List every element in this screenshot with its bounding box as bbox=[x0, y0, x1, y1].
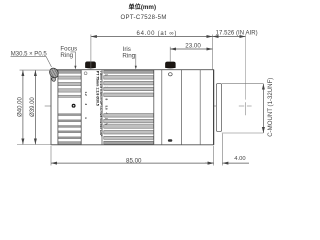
svg-text:Ø40.00: Ø40.00 bbox=[18, 97, 24, 117]
rear barrel inner line bbox=[199, 70, 201, 145]
c-mount extension lines bbox=[222, 83, 264, 85]
focus index dot bbox=[72, 104, 75, 107]
focus knurl section A bbox=[58, 70, 81, 144]
iris knurl section C bbox=[104, 70, 154, 144]
lens body outline bbox=[51, 70, 214, 145]
section B/C boundary bbox=[101, 70, 103, 145]
svg-text:PT 75mm 1:2.8 Ø30.5: PT 75mm 1:2.8 Ø30.5 bbox=[96, 71, 100, 106]
svg-text:Ring: Ring bbox=[122, 53, 135, 60]
svg-text:Ø39.00: Ø39.00 bbox=[30, 97, 36, 117]
svg-text:23.00: 23.00 bbox=[185, 43, 201, 50]
dim 64.00 line bbox=[91, 36, 213, 38]
dia 39 dim line bbox=[34, 70, 36, 144]
svg-text:C-MOUNT (1-32UNF): C-MOUNT (1-32UNF) bbox=[267, 78, 274, 137]
flange face bbox=[213, 70, 215, 145]
svg-text:Ring: Ring bbox=[60, 52, 73, 59]
iris knob screw top bbox=[168, 73, 172, 76]
svg-text:单位(mm): 单位(mm) bbox=[129, 3, 157, 11]
dim 23.00 line bbox=[170, 48, 212, 50]
dia 40 dim line bbox=[22, 70, 24, 144]
front thread blob M30.5 bbox=[48, 67, 60, 80]
focus knob screw bbox=[84, 72, 87, 75]
section D/E boundary bbox=[181, 70, 183, 145]
barrel engraving text bbox=[96, 71, 104, 138]
64 left ext bbox=[90, 35, 92, 70]
front cap section bbox=[57, 70, 59, 145]
svg-text:85.00: 85.00 bbox=[126, 158, 142, 165]
svg-text:64.00 (at ∞): 64.00 (at ∞) bbox=[137, 31, 178, 37]
focus lock knob bbox=[85, 62, 95, 68]
svg-text:∞: ∞ bbox=[84, 117, 88, 119]
svg-text:5.6: 5.6 bbox=[104, 106, 108, 111]
image plane line bbox=[245, 35, 247, 100]
svg-text:75mm 1:2.8 0.3m-∞ OPT-C7528 01: 75mm 1:2.8 0.3m-∞ OPT-C7528 012345 CAP bbox=[99, 71, 103, 138]
centerline bbox=[45, 105, 222, 107]
aperture scale numbers bbox=[104, 74, 108, 127]
dim 85.00 bbox=[50, 146, 52, 166]
section C right rim bbox=[153, 70, 155, 145]
iris screw bottom bbox=[168, 139, 172, 142]
dia dim bottom ext line bbox=[17, 144, 57, 146]
C-mount thread bbox=[216, 84, 221, 132]
iris lock knob bbox=[165, 62, 175, 68]
focus scale numbers bbox=[84, 92, 88, 120]
dim 17.526 line bbox=[213, 36, 246, 38]
svg-text:1.2: 1.2 bbox=[84, 92, 88, 97]
64 right ext bbox=[212, 35, 214, 70]
c-mount bracket line bbox=[262, 84, 264, 133]
image plane crosshair bbox=[245, 102, 247, 115]
23 left ext bbox=[169, 47, 171, 62]
section A/B boundary bbox=[80, 70, 82, 145]
svg-text:17.526 (IN AIR): 17.526 (IN AIR) bbox=[216, 31, 258, 37]
dia dim top ext line bbox=[20, 69, 51, 71]
svg-text:4.00: 4.00 bbox=[234, 156, 245, 162]
svg-text:OPT-C7528-5M: OPT-C7528-5M bbox=[121, 15, 167, 21]
dim 4.00 bbox=[221, 134, 223, 166]
